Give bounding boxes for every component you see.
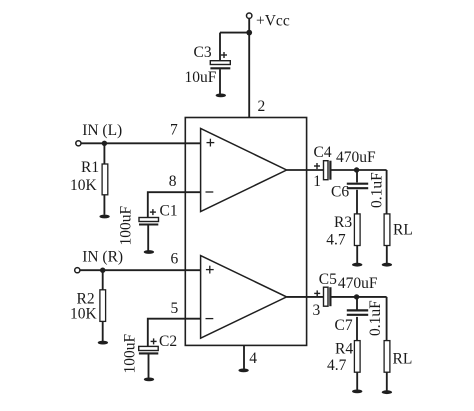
svg-text:5: 5 (171, 300, 179, 317)
wire C3 top lead (219, 33, 221, 61)
svg-text:IN (R): IN (R) (82, 248, 123, 265)
capacitor C1 (139, 209, 159, 224)
wire Vcc node to C3 (220, 32, 249, 34)
IN (L) terminal (76, 141, 81, 146)
svg-text:2: 2 (258, 98, 266, 115)
svg-text:1: 1 (313, 173, 321, 190)
svg-text:4.7: 4.7 (327, 357, 347, 374)
svg-text:4.7: 4.7 (326, 232, 346, 249)
wire R4 bottom lead (356, 372, 358, 390)
resistor R4 (354, 341, 360, 373)
IN (R) terminal (75, 268, 80, 273)
svg-text:100uF: 100uF (118, 206, 135, 246)
capacitor C7 (347, 310, 368, 314)
ground RL2 (382, 390, 392, 394)
wire Vcc stem to pin 2 (248, 19, 250, 118)
node IN (L) (102, 141, 107, 146)
wire R2 top lead (102, 270, 104, 290)
wire C1 bottom lead (147, 226, 149, 251)
svg-text:10K: 10K (70, 177, 98, 194)
resistor R1 (102, 164, 108, 195)
wire C6 to R3 (356, 190, 358, 214)
op-amp U1a plus input marker (207, 139, 215, 147)
wire R1 top lead (103, 143, 105, 164)
wire RL1 bottom lead (386, 246, 388, 264)
node out1 (354, 167, 359, 172)
op-amp U1b (201, 256, 287, 339)
IC box U1 (185, 118, 306, 346)
node IN (R) (100, 268, 105, 273)
svg-text:0.1uF: 0.1uF (367, 300, 384, 336)
op-amp U1a (201, 128, 287, 211)
capacitor C6 (347, 184, 368, 189)
resistor RL2 (384, 341, 390, 373)
wire pin 4 lead (243, 345, 245, 368)
+Vcc terminal (247, 13, 252, 18)
resistor R3 (354, 214, 360, 246)
svg-text:C4: C4 (314, 144, 332, 161)
ground C3 (216, 94, 226, 98)
wire IN (R) to pin 6 (80, 269, 201, 271)
wire C7 to R4 (356, 317, 358, 341)
svg-text:R3: R3 (334, 214, 352, 231)
svg-text:RL: RL (393, 351, 413, 368)
node out2 (354, 294, 359, 299)
ground C1 (144, 250, 154, 254)
svg-text:C5: C5 (319, 271, 337, 288)
svg-text:470uF: 470uF (336, 149, 376, 166)
svg-text:R4: R4 (335, 341, 353, 358)
ground RL1 (382, 263, 392, 267)
svg-text:3: 3 (313, 302, 321, 319)
svg-text:7: 7 (170, 122, 178, 139)
ground pin 4 (238, 369, 248, 373)
wire node to RL2 (386, 297, 388, 341)
ground R1 (99, 215, 109, 219)
wire output pin 1 (287, 169, 324, 171)
svg-text:0.1uF: 0.1uF (369, 172, 386, 208)
capacitor C3 (210, 52, 230, 68)
resistor RL1 (384, 214, 390, 246)
wire output pin 3 (287, 296, 324, 298)
wire after C4 (332, 169, 387, 171)
wire C3 bottom lead (219, 69, 221, 94)
svg-text:C6: C6 (331, 183, 349, 200)
wire RL2 bottom lead (386, 372, 388, 391)
wire pin 8 to C1 (148, 192, 201, 217)
svg-text:10K: 10K (70, 306, 98, 323)
svg-text:4: 4 (249, 350, 257, 367)
svg-text:100uF: 100uF (122, 334, 139, 374)
svg-text:R1: R1 (81, 159, 99, 176)
capacitor C5 (314, 287, 330, 306)
wire C2 bottom lead (148, 354, 150, 377)
op-amp U1b plus input marker (206, 266, 214, 274)
wire after C5 (332, 296, 387, 298)
svg-text:10uF: 10uF (185, 69, 217, 86)
svg-text:C7: C7 (335, 317, 353, 334)
ground R4 (352, 390, 362, 394)
wire pin 5 to C2 (148, 319, 201, 347)
wire IN (L) to pin 7 (81, 142, 201, 144)
wire node to RL1 (386, 170, 388, 214)
capacitor C4 (314, 161, 330, 180)
svg-text:C1: C1 (160, 203, 178, 220)
resistor R2 (100, 290, 106, 322)
wire node to C7 (356, 297, 358, 310)
svg-text:C3: C3 (194, 44, 212, 61)
svg-text:RL: RL (393, 222, 413, 239)
svg-text:470uF: 470uF (338, 275, 378, 292)
svg-text:8: 8 (169, 173, 177, 190)
wire R3 bottom lead (356, 246, 358, 264)
ground R2 (98, 341, 108, 345)
capacitor C2 (139, 338, 159, 353)
op-amp U1a minus input marker (206, 191, 214, 193)
svg-text:6: 6 (171, 250, 179, 267)
wire R2 bottom lead (102, 321, 104, 341)
ground C2 (144, 378, 154, 382)
svg-text:+Vcc: +Vcc (256, 13, 290, 30)
op-amp U1b minus input marker (206, 318, 214, 320)
wire R1 bottom lead (103, 195, 105, 215)
svg-text:IN (L): IN (L) (82, 122, 122, 139)
node Vcc (246, 30, 252, 36)
ground R3 (352, 263, 362, 267)
wire node to C6 (356, 170, 358, 182)
svg-text:C2: C2 (159, 333, 177, 350)
